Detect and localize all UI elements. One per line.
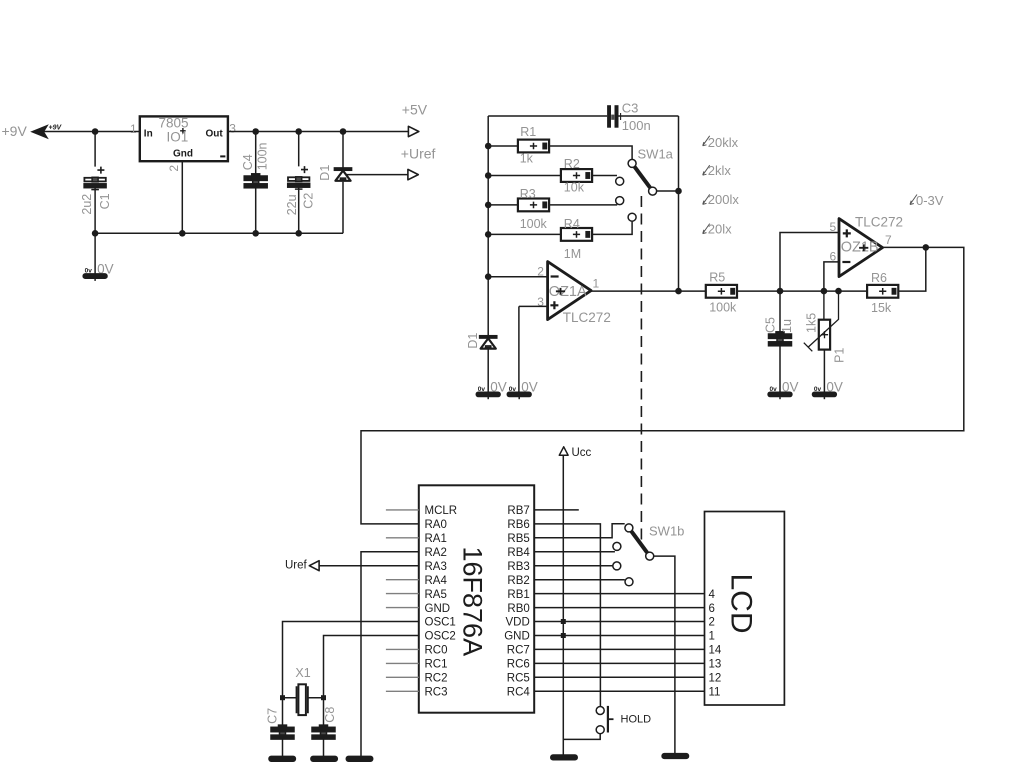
svg-text:10k: 10k bbox=[564, 181, 585, 195]
crystal X1 bbox=[283, 666, 324, 715]
node junction X1 right bbox=[321, 695, 326, 700]
svg-text:RB0: RB0 bbox=[507, 603, 529, 615]
svg-text:2: 2 bbox=[709, 617, 715, 629]
svg-text:Uref: Uref bbox=[285, 560, 308, 572]
ground 0V P1 bbox=[813, 380, 843, 400]
svg-text:GND: GND bbox=[504, 631, 530, 643]
pushbutton HOLD bbox=[596, 706, 651, 734]
svg-text:3: 3 bbox=[229, 122, 236, 136]
svg-text:LCD: LCD bbox=[725, 574, 758, 634]
capacitor C7 bbox=[266, 708, 295, 739]
wire R5 to R6 bbox=[737, 290, 867, 292]
wire RC6 to LCD13 bbox=[534, 662, 704, 664]
svg-text:C7: C7 bbox=[266, 708, 280, 724]
svg-text:RC3: RC3 bbox=[425, 687, 448, 699]
svg-text:2: 2 bbox=[537, 264, 544, 278]
svg-text:RC1: RC1 bbox=[425, 659, 448, 671]
node junction P1 bbox=[835, 288, 842, 295]
svg-text:RC7: RC7 bbox=[507, 645, 530, 657]
ground bar SW1b bbox=[662, 754, 688, 759]
svg-text:C4: C4 bbox=[241, 154, 255, 170]
svg-text:6: 6 bbox=[830, 250, 837, 264]
ground bar RA2 bbox=[346, 756, 372, 761]
node junction rail output bbox=[675, 288, 682, 295]
svg-text:RA4: RA4 bbox=[425, 575, 448, 587]
wire P1 to ground bbox=[823, 350, 825, 393]
wire OZ1B output to RA0 bbox=[361, 247, 964, 524]
node junction rail IO1 bbox=[179, 230, 186, 237]
svg-text:GND: GND bbox=[425, 603, 451, 615]
wire Ucc vertical bbox=[562, 455, 564, 755]
wire stub GND bbox=[386, 607, 419, 609]
svg-text:C8: C8 bbox=[323, 707, 337, 723]
wire C2 branch bbox=[298, 132, 300, 234]
node junction C4 bbox=[252, 128, 259, 135]
svg-text:1k: 1k bbox=[520, 152, 534, 166]
switch SW1b bbox=[613, 524, 685, 586]
svg-text:Out: Out bbox=[206, 128, 224, 139]
wire pin3 row bbox=[519, 306, 548, 392]
wire left rail bbox=[487, 116, 489, 336]
node 0-3V bbox=[910, 193, 944, 208]
svg-text:SW1b: SW1b bbox=[649, 524, 684, 539]
wire R2 row bbox=[488, 175, 617, 177]
wire stub RC3 bbox=[386, 690, 419, 692]
wire RB3 row bbox=[534, 565, 612, 567]
wire stub MCLR bbox=[386, 509, 419, 511]
svg-text:RB6: RB6 bbox=[507, 519, 529, 531]
diode D1 (reference) bbox=[318, 165, 352, 181]
potentiometer P1 bbox=[804, 291, 847, 363]
svg-text:RB5: RB5 bbox=[507, 533, 529, 545]
node +5V bbox=[402, 101, 428, 136]
svg-text:C5: C5 bbox=[764, 317, 778, 333]
svg-text:RA1: RA1 bbox=[425, 533, 447, 545]
svg-text:R4: R4 bbox=[564, 217, 580, 231]
wire RB1 to LCD4 bbox=[534, 593, 704, 595]
wire stub RA4 bbox=[386, 579, 419, 581]
switch SW1a bbox=[616, 147, 674, 222]
wire rail to ground bbox=[94, 233, 96, 274]
node junction output B bbox=[923, 244, 930, 251]
wire stub RC0 bbox=[386, 648, 419, 650]
wire stub RC1 bbox=[386, 662, 419, 664]
svg-text:1M: 1M bbox=[564, 247, 581, 261]
node junction VDD bbox=[561, 619, 566, 624]
node Ucc bbox=[559, 447, 591, 459]
svg-text:RA2: RA2 bbox=[425, 547, 447, 559]
wire top feedback left bbox=[488, 115, 607, 117]
svg-text:X1: X1 bbox=[295, 666, 310, 680]
svg-text:IO1: IO1 bbox=[167, 130, 189, 145]
wire top feedback right bbox=[619, 115, 679, 117]
svg-text:22u: 22u bbox=[285, 194, 299, 215]
wire Uref to RA3 bbox=[319, 565, 419, 567]
svg-text:P1: P1 bbox=[833, 348, 847, 363]
wire HOLD to gnd bbox=[563, 734, 600, 740]
svg-text:OZ1A: OZ1A bbox=[549, 284, 587, 300]
svg-text:R2: R2 bbox=[564, 157, 580, 171]
label 20klx bbox=[703, 135, 739, 150]
wire RB6 to HOLD bbox=[534, 524, 600, 706]
wire pin5 bbox=[780, 233, 839, 292]
svg-text:RB2: RB2 bbox=[507, 575, 529, 587]
node junction lever rail bbox=[675, 188, 682, 195]
svg-text:14: 14 bbox=[709, 645, 722, 657]
node junction rail C2 bbox=[295, 230, 302, 237]
svg-text:100n: 100n bbox=[622, 118, 651, 133]
svg-text:+9V: +9V bbox=[2, 123, 28, 139]
wire pin2 row bbox=[488, 276, 547, 278]
wire IO1 out to +5V bbox=[228, 131, 409, 133]
wire OSC2 bbox=[324, 636, 419, 728]
svg-text:C2: C2 bbox=[301, 193, 315, 209]
svg-text:R3: R3 bbox=[520, 187, 536, 201]
svg-text:TLC272: TLC272 bbox=[855, 215, 903, 230]
svg-text:RC5: RC5 bbox=[507, 673, 530, 685]
node junction R1 bbox=[485, 143, 492, 150]
capacitor C1 bbox=[80, 167, 112, 215]
svg-text:+Uref: +Uref bbox=[401, 146, 436, 162]
svg-text:0-3V: 0-3V bbox=[916, 193, 944, 208]
svg-text:2: 2 bbox=[167, 165, 181, 172]
svg-text:20klx: 20klx bbox=[708, 135, 739, 150]
capacitor C3 bbox=[607, 101, 651, 133]
svg-text:R1: R1 bbox=[520, 125, 536, 139]
node junction pin2 bbox=[485, 273, 492, 280]
resistor R1 bbox=[518, 125, 549, 166]
svg-text:RB4: RB4 bbox=[507, 547, 530, 559]
ground 0V pin3 bbox=[507, 380, 537, 400]
svg-text:D1: D1 bbox=[318, 165, 332, 181]
wire R3 row bbox=[488, 204, 617, 206]
svg-text:RB3: RB3 bbox=[507, 561, 529, 573]
svg-text:100k: 100k bbox=[520, 217, 548, 231]
node Uref bbox=[285, 560, 319, 572]
node junction R4 bbox=[485, 231, 492, 238]
wire R1 row bbox=[488, 146, 632, 159]
svg-text:6: 6 bbox=[709, 603, 715, 615]
op-amp OZ1B bbox=[830, 215, 904, 277]
wire D1 to ground bbox=[487, 348, 489, 392]
wire R4 row bbox=[488, 222, 632, 235]
svg-text:RC2: RC2 bbox=[425, 673, 448, 685]
svg-text:RA3: RA3 bbox=[425, 561, 447, 573]
wire stub RA1 bbox=[386, 537, 419, 539]
svg-text:VDD: VDD bbox=[506, 617, 530, 629]
capacitor C8 bbox=[312, 707, 337, 739]
wire power ground rail bbox=[95, 232, 343, 234]
svg-text:Gnd: Gnd bbox=[173, 149, 193, 160]
wire mech link dashed bbox=[640, 196, 642, 540]
svg-text:SW1a: SW1a bbox=[638, 147, 674, 162]
svg-text:RB7: RB7 bbox=[507, 505, 529, 517]
svg-text:In: In bbox=[144, 128, 153, 139]
wire RB2 row bbox=[534, 579, 625, 581]
svg-text:11: 11 bbox=[709, 687, 721, 699]
node junction C5 bbox=[777, 288, 784, 295]
svg-text:RC4: RC4 bbox=[507, 687, 531, 699]
wire SW1b lever out bbox=[654, 556, 675, 754]
node +9V bbox=[2, 123, 63, 139]
wire RC7 to LCD14 bbox=[534, 648, 704, 650]
svg-text:2u2: 2u2 bbox=[80, 194, 94, 215]
svg-text:20lx: 20lx bbox=[708, 221, 732, 236]
mcu IC1 16F876A bbox=[419, 485, 534, 712]
label 200lx bbox=[703, 192, 740, 207]
svg-text:R5: R5 bbox=[709, 270, 725, 284]
svg-text:7805: 7805 bbox=[159, 116, 189, 131]
svg-text:200lx: 200lx bbox=[708, 192, 740, 207]
capacitor C4 bbox=[241, 142, 270, 187]
svg-text:7: 7 bbox=[885, 233, 892, 247]
svg-text:C1: C1 bbox=[98, 193, 112, 209]
capacitor C2 bbox=[285, 166, 316, 215]
svg-text:1: 1 bbox=[709, 631, 715, 643]
resistor R6 bbox=[867, 271, 898, 315]
wire right feedback rail bbox=[678, 116, 680, 291]
node junction C1 top bbox=[92, 128, 99, 135]
wire RC4 to LCD11 bbox=[534, 690, 704, 692]
wire stub RA5 bbox=[386, 593, 419, 595]
svg-text:1: 1 bbox=[130, 122, 137, 136]
diode D1 (photodiode) bbox=[466, 333, 497, 349]
display LCD bbox=[705, 512, 785, 706]
ground 0V C5 bbox=[768, 380, 798, 400]
svg-text:RC6: RC6 bbox=[507, 659, 530, 671]
wire RC5 to LCD12 bbox=[534, 676, 704, 678]
wire C8 to ground bbox=[323, 739, 325, 756]
wire stub RB7 bbox=[534, 509, 579, 511]
wire D1 branch bbox=[342, 132, 344, 234]
node junction C2 bbox=[295, 128, 302, 135]
svg-text:R6: R6 bbox=[871, 271, 887, 285]
wire D1 to +Uref bbox=[346, 174, 408, 176]
wire C5 branch bbox=[779, 291, 781, 392]
wire stub RC2 bbox=[386, 676, 419, 678]
wire GND to LCD1 bbox=[534, 635, 704, 637]
svg-text:15k: 15k bbox=[871, 301, 892, 315]
wire C4 branch bbox=[255, 132, 257, 234]
node junction rail C1 bbox=[92, 230, 99, 237]
svg-text:OSC1: OSC1 bbox=[425, 617, 456, 629]
node junction D1 bbox=[340, 128, 347, 135]
svg-text:+9V: +9V bbox=[49, 125, 63, 132]
node junction R3 bbox=[485, 202, 492, 209]
ground 0V power bbox=[83, 261, 113, 281]
wire RA2 to ground bbox=[361, 552, 419, 757]
ground bar C7 bbox=[269, 756, 295, 761]
label 20lx bbox=[703, 221, 732, 236]
svg-text:100k: 100k bbox=[709, 300, 737, 314]
op-amp OZ1A bbox=[537, 262, 611, 325]
wire OZ1A output bbox=[591, 290, 706, 292]
svg-text:RA5: RA5 bbox=[425, 589, 447, 601]
wire OSC1 bbox=[283, 622, 419, 728]
wire RB4 row bbox=[534, 551, 615, 553]
svg-text:Ucc: Ucc bbox=[572, 447, 592, 459]
svg-text:5: 5 bbox=[830, 220, 837, 234]
svg-text:RA0: RA0 bbox=[425, 519, 447, 531]
svg-text:RC0: RC0 bbox=[425, 645, 448, 657]
node junction GND bbox=[561, 633, 566, 638]
resistor R4 bbox=[561, 217, 592, 261]
regulator IO1 7805 bbox=[130, 116, 236, 172]
svg-text:1u: 1u bbox=[780, 319, 794, 333]
wire SW1a lever out bbox=[657, 190, 679, 192]
wire RB0 to LCD6 bbox=[534, 607, 704, 609]
ground bar C8 bbox=[311, 756, 337, 761]
ground bar Ucc bbox=[551, 755, 577, 760]
svg-text:12: 12 bbox=[709, 673, 722, 685]
wire R6 to output bbox=[898, 247, 926, 291]
capacitor C5 bbox=[764, 317, 795, 346]
svg-text:1k5: 1k5 bbox=[805, 313, 819, 333]
wire IO1 gnd pin 2 bbox=[181, 161, 183, 233]
wire VDD to LCD2 bbox=[534, 621, 704, 623]
wire C7 to ground bbox=[282, 739, 284, 756]
svg-text:MCLR: MCLR bbox=[425, 505, 458, 517]
svg-text:13: 13 bbox=[709, 659, 722, 671]
resistor R5 bbox=[706, 270, 737, 314]
node +Uref bbox=[401, 146, 436, 180]
node junction X1 left bbox=[280, 695, 285, 700]
svg-text:4: 4 bbox=[709, 589, 716, 601]
node junction pin6 bbox=[821, 288, 828, 295]
resistor R2 bbox=[561, 157, 592, 195]
resistor R3 bbox=[518, 187, 549, 231]
wire +9V to IO1 bbox=[33, 131, 140, 133]
node junction rail C4 bbox=[252, 230, 259, 237]
svg-text:HOLD: HOLD bbox=[621, 714, 652, 726]
svg-text:+5V: +5V bbox=[402, 101, 428, 117]
svg-text:2klx: 2klx bbox=[708, 163, 732, 178]
wire RB5 to SW1b bbox=[534, 524, 625, 538]
svg-text:100n: 100n bbox=[256, 142, 270, 170]
ground 0V D1 bbox=[476, 380, 506, 400]
svg-text:1: 1 bbox=[593, 277, 600, 291]
wire C1 branch bbox=[94, 132, 96, 234]
svg-text:C3: C3 bbox=[622, 101, 639, 116]
svg-text:D1: D1 bbox=[466, 333, 480, 349]
label 2klx bbox=[703, 163, 732, 178]
wire pin6 bbox=[824, 262, 839, 291]
svg-text:RB1: RB1 bbox=[507, 589, 529, 601]
svg-text:TLC272: TLC272 bbox=[563, 310, 611, 325]
svg-text:16F876A: 16F876A bbox=[458, 547, 488, 657]
svg-text:OSC2: OSC2 bbox=[425, 631, 456, 643]
node junction R2 bbox=[485, 172, 492, 179]
